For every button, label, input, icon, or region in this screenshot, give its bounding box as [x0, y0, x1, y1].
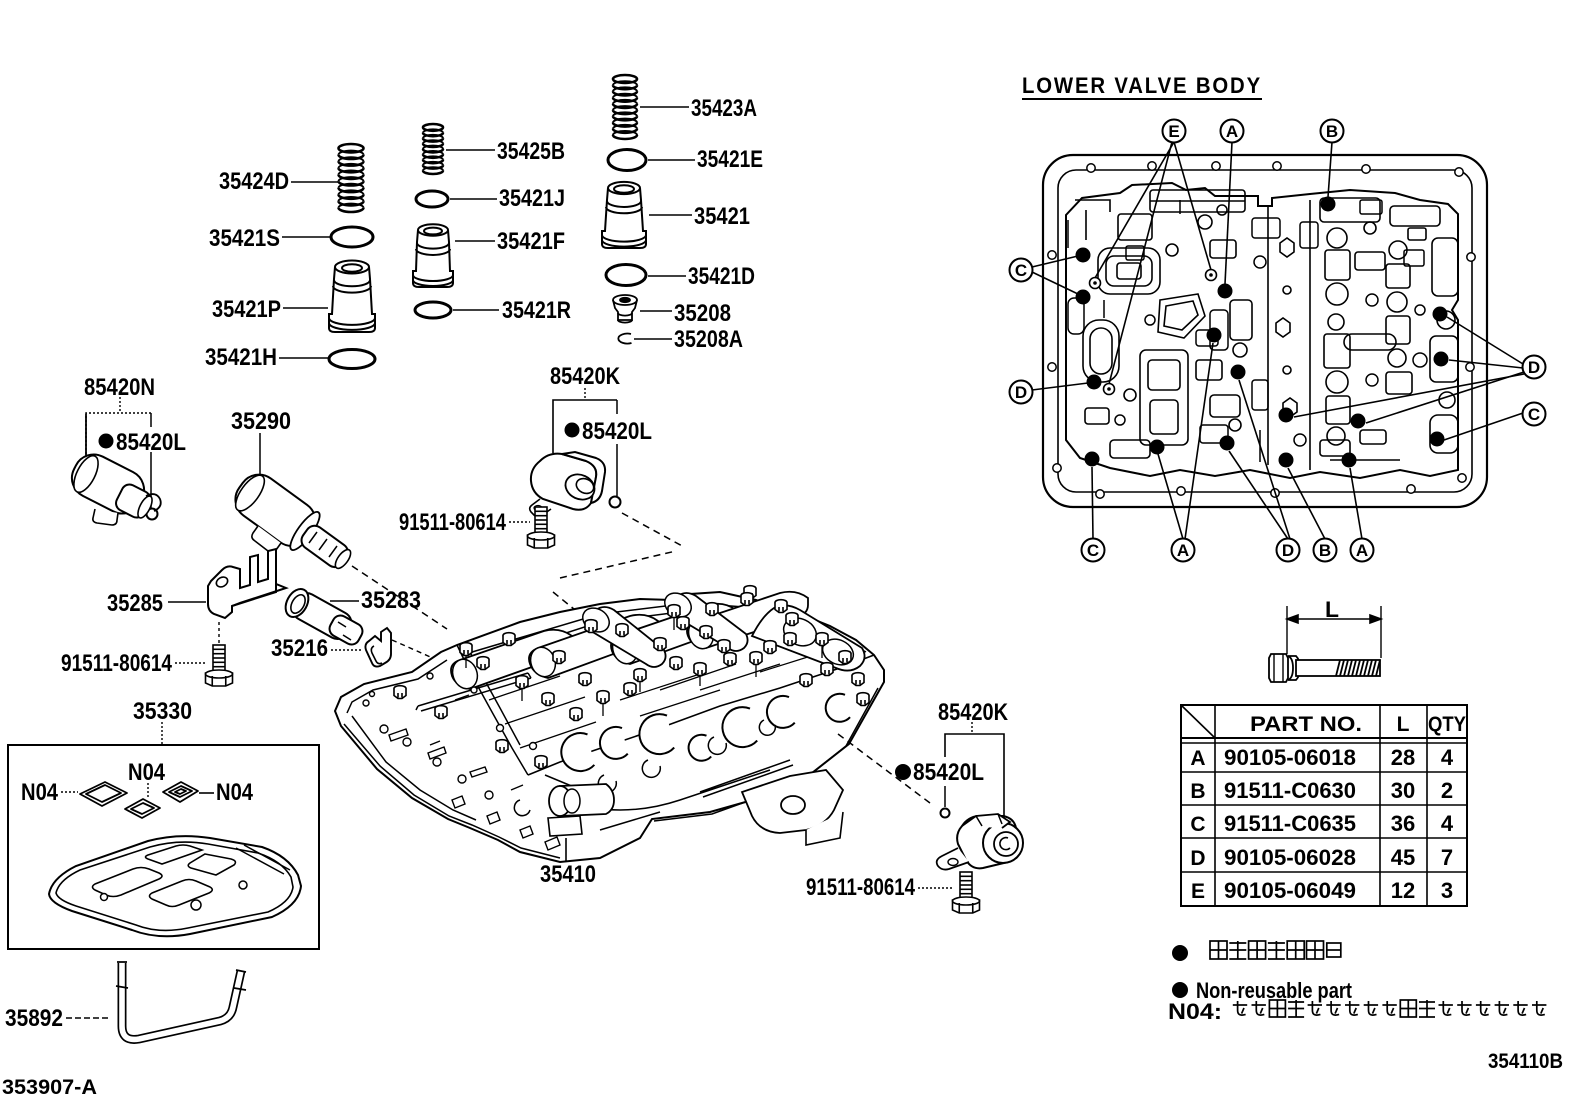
- leader lines lower valve body: [1095, 142, 1174, 278]
- oil pipe 35892: [116, 962, 246, 1039]
- svg-text:35208A: 35208A: [674, 326, 743, 353]
- plate interior right details: [1320, 198, 1458, 456]
- callout circle B top: [1321, 120, 1344, 143]
- solenoid 85420K top: [530, 452, 605, 517]
- svg-text:A: A: [1190, 747, 1205, 770]
- svg-text:A: A: [1226, 122, 1238, 141]
- svg-text:C: C: [1015, 261, 1027, 280]
- svg-text:3: 3: [1441, 878, 1453, 903]
- svg-text:28: 28: [1391, 745, 1415, 770]
- svg-text:35423A: 35423A: [691, 95, 757, 122]
- plate interior left details: [1075, 190, 1252, 458]
- bracket 35285: [208, 549, 286, 618]
- svg-text:A: A: [1177, 541, 1189, 560]
- callout circle B bottom: [1314, 539, 1337, 562]
- svg-text:85420L: 85420L: [116, 429, 186, 456]
- svg-text:QTY: QTY: [1428, 713, 1466, 736]
- solenoid 85420N: [65, 448, 161, 525]
- svg-text:90105-06028: 90105-06028: [1224, 845, 1356, 870]
- leader tick 85420K top: [584, 388, 586, 398]
- svg-text:D: D: [1015, 383, 1027, 402]
- retainer ring 35208A: [618, 334, 631, 344]
- svg-text:353907-A: 353907-A: [2, 1076, 97, 1099]
- svg-text:35424D: 35424D: [219, 168, 289, 195]
- svg-text:2: 2: [1441, 778, 1453, 803]
- non-reusable dot 85420L right: [895, 764, 911, 780]
- leader N04 left: [61, 791, 78, 793]
- valve body hex bolts: [460, 643, 472, 656]
- svg-text:35216: 35216: [271, 635, 328, 662]
- svg-text:91511-80614: 91511-80614: [61, 650, 173, 677]
- svg-text:35421P: 35421P: [212, 296, 281, 323]
- svg-text:85420L: 85420L: [582, 418, 652, 445]
- dashed leader 35290 to body: [352, 566, 447, 629]
- leader line 35421E: [648, 159, 695, 161]
- valve body bottom accumulator: [514, 784, 614, 836]
- leader line 35283: [330, 600, 359, 602]
- dashed leader 35285 to bolt: [218, 622, 220, 645]
- svg-text:30: 30: [1391, 778, 1415, 803]
- o-ring 85420L left: [147, 509, 158, 520]
- svg-text:L: L: [1397, 713, 1410, 736]
- callout circle D bottom: [1277, 539, 1300, 562]
- dashed leader body to 85420L right: [838, 734, 934, 806]
- valve body front band small arcs: [598, 720, 775, 792]
- svg-text:B: B: [1190, 780, 1205, 803]
- callout circle C left: [1010, 259, 1033, 282]
- valve body cross tube 2: [660, 588, 747, 651]
- leader line 35423A: [640, 106, 689, 108]
- svg-text:12: 12: [1391, 878, 1415, 903]
- valve body plate holes: [363, 700, 369, 706]
- leader N04 right: [199, 792, 214, 794]
- bracket line 85420N: [86, 413, 151, 458]
- leader line 35421F: [455, 240, 495, 242]
- legend japanese non-reusable: [1210, 941, 1341, 959]
- svg-text:35290: 35290: [231, 408, 291, 435]
- legend dot 1: [1172, 945, 1188, 961]
- svg-text:85420L: 85420L: [913, 759, 984, 786]
- svg-text:D: D: [1190, 847, 1205, 870]
- gasket N04 middle: [125, 799, 160, 818]
- solenoid 85420K right: [937, 814, 1023, 870]
- spring 35425B: [423, 124, 443, 174]
- callout circle A top: [1221, 120, 1244, 143]
- bolt hole dots lower valve body: [1076, 248, 1091, 263]
- svg-text:N04: N04: [216, 779, 254, 806]
- leader line 35285: [168, 601, 206, 603]
- valve body tube row 3: [609, 604, 736, 667]
- bolt 91511-80614 top: [528, 507, 555, 548]
- valve body stud posts: [466, 618, 822, 716]
- o-ring 85420L right: [941, 809, 950, 818]
- oil strainer 35330: [49, 836, 301, 936]
- svg-text:91511-C0630: 91511-C0630: [1224, 778, 1356, 803]
- leader line 35216: [331, 649, 363, 651]
- leader tick 85420K right: [971, 722, 973, 733]
- svg-text:35421F: 35421F: [497, 228, 565, 255]
- wire 85420L left drop: [150, 413, 152, 427]
- bracket 85420K top: [553, 400, 617, 453]
- svg-text:N04: N04: [21, 779, 59, 806]
- svg-text:35421J: 35421J: [499, 185, 565, 212]
- leader line 35410: [565, 838, 567, 862]
- svg-text:D: D: [1282, 541, 1294, 560]
- valve body bottom skirt studs: [430, 741, 560, 850]
- svg-text:C: C: [1528, 405, 1540, 424]
- svg-text:D: D: [1528, 358, 1540, 377]
- leader line 35424D: [291, 181, 338, 183]
- svg-text:85420K: 85420K: [938, 699, 1009, 726]
- valve body tube row 4: [685, 592, 808, 652]
- svg-text:A: A: [1356, 541, 1368, 560]
- svg-text:35421R: 35421R: [502, 297, 571, 324]
- leader line 35421J: [450, 198, 497, 200]
- svg-text:36: 36: [1391, 811, 1415, 836]
- svg-text:B: B: [1319, 541, 1331, 560]
- svg-text:35892: 35892: [5, 1005, 63, 1032]
- bracket 85420K right: [945, 734, 1004, 821]
- sleeve 35283: [281, 585, 365, 647]
- solenoid 35290: [228, 467, 354, 571]
- svg-text:35421E: 35421E: [697, 146, 763, 173]
- svg-text:35208: 35208: [674, 300, 731, 327]
- leader line 35425B: [446, 149, 495, 151]
- svg-text:35410: 35410: [540, 861, 596, 888]
- valve body front band lines: [545, 760, 793, 830]
- wire 85420L top drop: [616, 400, 618, 414]
- wire 85420L right drop: [944, 786, 946, 807]
- leader line 35208: [640, 310, 672, 312]
- leader line 35290: [259, 433, 261, 477]
- leader N04 middle: [147, 783, 149, 797]
- callout circle A bottom right: [1351, 539, 1374, 562]
- legend dot 2: [1172, 982, 1188, 998]
- svg-text:4: 4: [1441, 811, 1454, 836]
- svg-text:35425B: 35425B: [497, 138, 565, 165]
- o-ring 35421S: [331, 227, 373, 247]
- svg-text:35421S: 35421S: [209, 225, 280, 252]
- svg-text:91511-80614: 91511-80614: [399, 509, 506, 536]
- clamp 35216: [365, 628, 391, 667]
- dashed leader 85420K top to body: [622, 513, 684, 547]
- valve body assembly 35410: [335, 592, 884, 862]
- o-ring 35421E: [608, 150, 646, 171]
- leader line 35208A: [634, 338, 672, 340]
- callout circle A bottom: [1172, 539, 1195, 562]
- dimension arrows: [1287, 606, 1381, 658]
- leader tick 35330: [161, 722, 163, 744]
- valve body bore circles: [561, 733, 594, 771]
- svg-text:B: B: [1326, 122, 1338, 141]
- leader line 91511-80614 top: [509, 521, 530, 523]
- valve body right bracket: [742, 770, 843, 845]
- svg-text:35285: 35285: [107, 590, 163, 617]
- reference bolt drawing: [1269, 654, 1380, 682]
- svg-text:N04:: N04:: [1168, 999, 1222, 1024]
- leader line 35421S: [282, 236, 330, 238]
- leader line 35421P: [283, 307, 328, 309]
- bolt 91511-80614 left: [206, 645, 233, 686]
- gasket N04 left: [80, 782, 127, 806]
- callout circle E: [1163, 120, 1186, 143]
- callout circle D left: [1010, 381, 1033, 404]
- valve body right cylinders: [752, 605, 865, 670]
- leader line 35421D: [648, 275, 686, 277]
- valve body cross tube 1: [578, 603, 665, 667]
- svg-text:90105-06049: 90105-06049: [1224, 878, 1356, 903]
- svg-text:35421: 35421: [694, 203, 750, 230]
- valve body plate slots: [389, 695, 487, 777]
- o-ring 35421J: [416, 191, 448, 207]
- bolt 91511-80614 right: [953, 872, 980, 913]
- svg-text:35283: 35283: [361, 587, 421, 614]
- svg-text:7: 7: [1441, 845, 1453, 870]
- cover bolt holes: [1087, 164, 1095, 172]
- svg-text:C: C: [1190, 813, 1205, 836]
- svg-text:85420N: 85420N: [84, 374, 155, 401]
- leader line 35421: [649, 214, 692, 216]
- o-ring 85420L top: [610, 497, 621, 508]
- callout circle C right: [1523, 403, 1546, 426]
- piston plug 35421P: [329, 261, 375, 332]
- svg-text:91511-80614: 91511-80614: [806, 874, 915, 901]
- o-ring 35421R: [415, 302, 451, 318]
- piston plug 35421F: [413, 224, 453, 287]
- fastener table: [1181, 705, 1467, 906]
- svg-text:45: 45: [1391, 845, 1415, 870]
- leader line 35421R: [453, 309, 499, 311]
- check ball body 35208: [613, 295, 637, 323]
- svg-text:354110B: 354110B: [1488, 1050, 1563, 1073]
- svg-text:35421D: 35421D: [688, 263, 755, 290]
- leader tick 85420N: [119, 397, 121, 411]
- lower valve body plate outline: [1066, 183, 1458, 478]
- svg-text:N04: N04: [128, 759, 166, 786]
- svg-text:C: C: [1087, 541, 1099, 560]
- svg-text:4: 4: [1441, 745, 1454, 770]
- non-reusable dot 85420L left: [99, 434, 114, 449]
- dashed leader 35216 to body: [392, 640, 444, 663]
- svg-text:90105-06018: 90105-06018: [1224, 745, 1356, 770]
- leader line 91511-80614 left: [175, 662, 206, 664]
- non-reusable dot 85420L top: [565, 423, 580, 438]
- plate interior extra details: [1068, 200, 1427, 462]
- callout circle D right: [1523, 356, 1546, 379]
- callout circle C bottom: [1082, 539, 1105, 562]
- kit box 35330: [8, 745, 319, 949]
- valve body tube row 2: [527, 615, 658, 680]
- leader line 35421H: [279, 357, 328, 359]
- o-ring 35421H: [329, 350, 375, 369]
- spring 35424D: [339, 144, 364, 212]
- svg-text:35421H: 35421H: [205, 344, 277, 371]
- o-ring 35421D: [606, 265, 646, 286]
- svg-text:85420K: 85420K: [550, 363, 621, 390]
- svg-text:E: E: [1168, 122, 1179, 141]
- plate interior middle details: [1268, 200, 1310, 470]
- spring 35423A: [613, 75, 637, 139]
- svg-text:91511-C0635: 91511-C0635: [1224, 811, 1356, 836]
- piston plug 35421: [602, 182, 646, 248]
- svg-text:PART NO.: PART NO.: [1250, 713, 1362, 736]
- svg-text:LOWER VALVE BODY: LOWER VALVE BODY: [1022, 73, 1262, 98]
- svg-text:35330: 35330: [133, 698, 192, 725]
- lower valve body cover outline: [1043, 155, 1487, 507]
- small bolt holes E: [1090, 278, 1101, 289]
- svg-text:E: E: [1191, 880, 1205, 903]
- valve body tube row 1: [449, 630, 572, 692]
- leader line 91511-80614 right: [918, 887, 954, 889]
- leader line 35892: [66, 1017, 110, 1019]
- gasket N04 right: [163, 782, 198, 802]
